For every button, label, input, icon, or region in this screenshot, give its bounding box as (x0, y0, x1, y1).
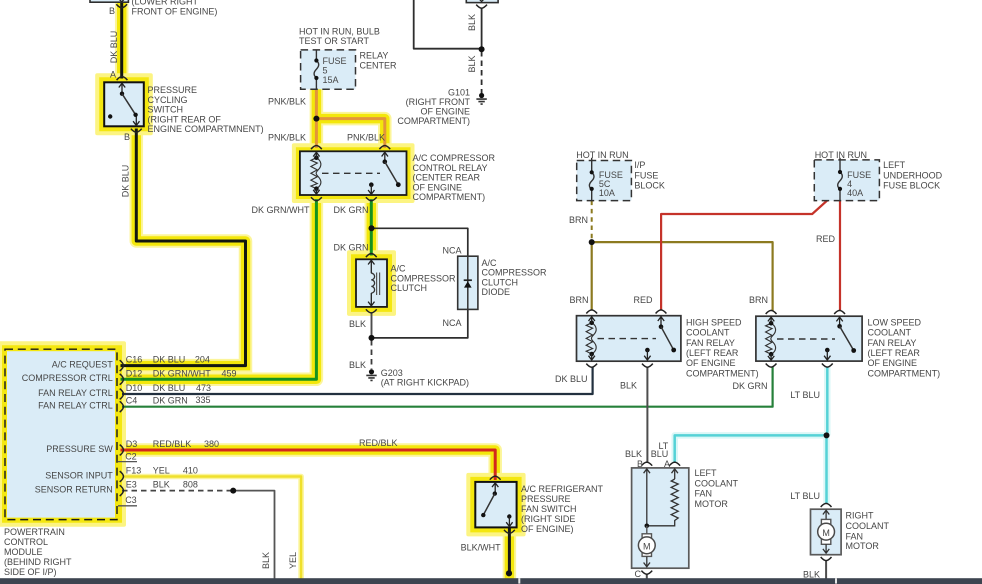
svg-text:C: C (635, 569, 642, 579)
wire LT BLU low speed relay to junction and left fan motor (675, 367, 828, 463)
wire BLK 808 junction to bottom (233, 491, 274, 579)
wire glow RED/BLK 380 highlighted run (122, 450, 495, 479)
relay actuator dashed link (777, 338, 835, 340)
relay terminal cups (586, 310, 597, 314)
svg-text:CLUTCH: CLUTCH (391, 283, 428, 293)
svg-text:C16: C16 (126, 355, 143, 365)
svg-text:BLK: BLK (620, 381, 637, 391)
svg-text:DK GRN: DK GRN (732, 381, 767, 391)
wire LT BLU junction to right fan motor (823, 435, 830, 503)
switch terminal cups (117, 77, 128, 81)
relay coil terminal arrows (313, 152, 319, 158)
svg-text:PRESSURE SW: PRESSURE SW (46, 444, 113, 454)
component: A/C compressor clutch (356, 254, 387, 313)
svg-text:335: 335 (196, 395, 211, 405)
splice DK GRN / diode top (369, 225, 375, 231)
svg-text:OF ENGINE: OF ENGINE (420, 107, 470, 117)
svg-text:RIGHT: RIGHT (846, 511, 875, 521)
svg-text:B: B (124, 132, 130, 142)
svg-text:MOTOR: MOTOR (695, 499, 729, 509)
wire BLK left fan motor C to bottom (646, 574, 648, 579)
svg-text:(RIGHT SIDE: (RIGHT SIDE (521, 514, 575, 524)
svg-text:BRN: BRN (569, 295, 588, 305)
svg-text:PRESSURE: PRESSURE (521, 494, 571, 504)
PCM pin cup F13 (120, 471, 124, 482)
wire BLK top-right box to G101 junction (481, 8, 483, 49)
svg-text:F13: F13 (126, 466, 142, 476)
svg-text:FUSE: FUSE (634, 170, 658, 180)
svg-text:COMPRESSOR: COMPRESSOR (391, 273, 457, 283)
svg-text:M: M (643, 541, 651, 551)
svg-text:FAN RELAY: FAN RELAY (686, 338, 735, 348)
component: right coolant fan motor (811, 503, 842, 560)
svg-text:BLK: BLK (467, 55, 477, 72)
wire BRN dashed fuse 5C to junction (591, 201, 593, 240)
relay coil (766, 323, 772, 354)
PCM pin stub C3 (118, 505, 137, 507)
wire BLK dashed junction to ground G101 (481, 51, 483, 93)
svg-text:CENTER: CENTER (360, 60, 398, 70)
svg-text:204: 204 (195, 355, 210, 365)
svg-text:FAN: FAN (695, 489, 713, 499)
svg-text:B: B (637, 459, 643, 469)
svg-text:C2: C2 (125, 451, 137, 461)
CORES (122, 0, 510, 572)
svg-text:LEFT: LEFT (883, 160, 906, 170)
svg-text:COMPARTMENT): COMPARTMENT) (868, 368, 941, 378)
svg-text:YEL: YEL (288, 552, 298, 569)
svg-text:BLOCK: BLOCK (634, 180, 665, 190)
splice BLK/WHT end (506, 570, 512, 576)
svg-text:COMPARTMENT): COMPARTMENT) (397, 116, 470, 126)
svg-text:G101: G101 (448, 87, 470, 97)
svg-text:BLK: BLK (153, 480, 170, 490)
component: fuse 5 relay center box (301, 50, 356, 89)
svg-text:DK GRN/WHT: DK GRN/WHT (252, 205, 310, 215)
wire BLK/WHT core fan switch to splice (508, 527, 511, 572)
component: high speed coolant fan relay (577, 310, 681, 367)
svg-text:A/C: A/C (482, 258, 498, 268)
splice BLK G101 (479, 46, 485, 52)
svg-text:LEFT: LEFT (695, 468, 718, 478)
svg-text:B: B (109, 6, 115, 16)
svg-text:10A: 10A (599, 188, 615, 198)
svg-text:OF ENGINE: OF ENGINE (686, 358, 736, 368)
svg-text:DIODE: DIODE (482, 287, 511, 297)
relay actuator dashed link (322, 172, 380, 174)
wire PNK/BLK core fuse 5 to relay with branch (316, 89, 384, 146)
svg-text:(AT RIGHT KICKPAD): (AT RIGHT KICKPAD) (381, 377, 469, 387)
relay switch (384, 152, 386, 161)
svg-text:DK BLU: DK BLU (555, 374, 588, 384)
svg-text:CONTROL RELAY: CONTROL RELAY (413, 163, 488, 173)
relay switch (658, 317, 664, 327)
svg-text:FUSE: FUSE (323, 56, 347, 66)
svg-text:RED: RED (816, 234, 836, 244)
svg-text:OF ENGINE: OF ENGINE (868, 358, 918, 368)
wire glow BLK/WHT highlighted run (503, 527, 517, 574)
svg-text:LT BLU: LT BLU (790, 491, 820, 501)
svg-text:DK BLU: DK BLU (109, 31, 119, 64)
svg-text:SENSOR RETURN: SENSOR RETURN (35, 484, 113, 494)
left fan motor resistor (647, 479, 678, 526)
splice LT BLU (824, 432, 830, 438)
svg-text:BLK: BLK (467, 14, 477, 31)
svg-text:BLK/WHT: BLK/WHT (461, 542, 502, 552)
clutch coil (371, 273, 374, 293)
svg-text:FRONT OF ENGINE): FRONT OF ENGINE) (132, 7, 218, 17)
wire RED fuse 4 to low speed relay (839, 200, 841, 311)
svg-text:COOLANT: COOLANT (686, 328, 730, 338)
wire RED/BLK 380 core PCM D3 to pressure fan switch (122, 450, 495, 479)
component: left coolant fan motor (632, 462, 689, 574)
wire RED fuse 4 diagonal dark lead (829, 189, 841, 199)
svg-text:COMPRESSOR: COMPRESSOR (482, 268, 548, 278)
svg-text:(BEHIND RIGHT: (BEHIND RIGHT (4, 557, 72, 567)
svg-text:DK GRN/WHT: DK GRN/WHT (153, 368, 211, 378)
svg-text:LT BLU: LT BLU (790, 390, 820, 400)
svg-text:(LEFT REAR: (LEFT REAR (868, 348, 921, 358)
wire DK BLU 204 core pressure switch to PCM C16 (122, 130, 246, 366)
svg-text:D3: D3 (126, 439, 138, 449)
svg-text:NCA: NCA (442, 318, 461, 328)
svg-text:HIGH SPEED: HIGH SPEED (686, 317, 742, 327)
wire DK BLU 204 core top box to pressure switch (120, 0, 123, 77)
PCM pin cup E3 (120, 485, 124, 496)
component: powertrain control module (5, 349, 137, 519)
svg-text:COOLANT: COOLANT (695, 478, 739, 488)
svg-text:(CENTER REAR: (CENTER REAR (413, 173, 481, 183)
component: A/C compressor clutch diode (458, 256, 478, 309)
svg-text:808: 808 (183, 480, 198, 490)
wire RED fuse 4 to high speed relay (661, 189, 840, 310)
svg-text:CLUTCH: CLUTCH (482, 277, 519, 287)
svg-text:FAN SWITCH: FAN SWITCH (521, 504, 577, 514)
svg-text:DK BLU: DK BLU (153, 383, 186, 393)
right fan motor M symbol (821, 519, 830, 544)
svg-text:BLK: BLK (803, 569, 820, 579)
svg-text:RELAY: RELAY (360, 51, 389, 61)
relay coil (586, 323, 592, 354)
wire DK BLU 473 D10 to high speed fan relay (122, 367, 593, 394)
svg-text:(RIGHT REAR OF: (RIGHT REAR OF (148, 114, 222, 124)
svg-text:COMPARTMENT): COMPARTMENT) (686, 368, 759, 378)
wire glow DK GRN/WHT 459 highlighted run (122, 201, 316, 380)
component: engine box (lower right front of engine, cut off at top) (90, 0, 128, 8)
wire BRN junction to high speed relay (591, 242, 593, 310)
svg-text:YEL: YEL (153, 466, 170, 476)
svg-text:HOT IN RUN: HOT IN RUN (815, 150, 867, 160)
svg-text:C4: C4 (126, 396, 138, 406)
svg-text:COMPRESSOR CTRL: COMPRESSOR CTRL (22, 373, 113, 383)
svg-text:CYCLING: CYCLING (148, 95, 188, 105)
svg-text:ENGINE COMPARTMNENT): ENGINE COMPARTMNENT) (148, 124, 264, 134)
component glow A/C compressor clutch (349, 252, 394, 314)
svg-text:40A: 40A (847, 188, 863, 198)
svg-text:COOLANT: COOLANT (846, 521, 890, 531)
svg-text:CONTROL: CONTROL (4, 537, 48, 547)
svg-text:DK BLU: DK BLU (121, 165, 131, 198)
svg-text:FAN: FAN (846, 532, 864, 542)
wire DK GRN core relay to clutch (370, 201, 373, 254)
svg-text:DK GRN: DK GRN (333, 205, 368, 215)
component: ground distribution box (top right, cut off) (466, 0, 498, 8)
wire BLK right fan motor to bottom (825, 561, 827, 579)
svg-text:BLK: BLK (261, 552, 271, 569)
component: fuse 4 left underhood fuse block box (814, 158, 879, 201)
svg-text:HOT IN RUN: HOT IN RUN (576, 150, 628, 160)
svg-text:TEST OR START: TEST OR START (299, 36, 370, 46)
component: A/C compressor control relay (300, 146, 407, 201)
svg-text:RED: RED (633, 295, 653, 305)
svg-text:SENSOR INPUT: SENSOR INPUT (45, 470, 113, 480)
svg-text:473: 473 (196, 383, 211, 393)
PCM pin cup D12 (120, 374, 124, 385)
svg-text:380: 380 (204, 439, 219, 449)
component glow powertrain control module (0, 343, 124, 525)
PCM pin cup C4 (120, 401, 124, 412)
splice BLK 808 (230, 488, 236, 494)
ground G101 (476, 93, 486, 104)
svg-text:FUSE BLOCK: FUSE BLOCK (883, 180, 940, 190)
relay terminal cups (766, 310, 777, 314)
svg-text:COOLANT: COOLANT (868, 328, 912, 338)
component glow pressure cycling switch (97, 75, 151, 133)
wire BLK clutch to junction (371, 313, 373, 338)
relay coil terminal arrows (589, 317, 595, 323)
PCM pin cup D3 (120, 445, 124, 456)
svg-text:UNDERHOOD: UNDERHOOD (883, 170, 943, 180)
wire NCA diode top branch (372, 228, 468, 256)
relay switch (836, 317, 842, 326)
component: pressure cycling switch (104, 77, 144, 133)
svg-text:PNK/BLK: PNK/BLK (268, 97, 306, 107)
wire glow YEL 410 soft glow (122, 477, 301, 578)
ground G203 (366, 369, 376, 380)
svg-text:(RIGHT FRONT: (RIGHT FRONT (406, 97, 471, 107)
wire BLK L-run from top edge to G101 junction (414, 0, 482, 49)
bottom bar (0, 578, 982, 584)
svg-text:OF ENGINE: OF ENGINE (413, 182, 463, 192)
svg-text:BLK: BLK (349, 319, 366, 329)
PCM pin cup D10 (120, 389, 124, 400)
svg-text:DK GRN: DK GRN (333, 243, 368, 253)
left fan motor M symbol (646, 526, 648, 534)
svg-text:BRN: BRN (749, 295, 768, 305)
wire BRN junction to low speed relay (592, 242, 773, 311)
wire YEL 410 core (122, 477, 301, 579)
svg-text:5: 5 (323, 66, 328, 76)
GLOWS (0, 0, 524, 578)
svg-text:BLK: BLK (349, 360, 366, 370)
svg-text:COMPARTMENT): COMPARTMENT) (413, 192, 486, 202)
svg-text:MOTOR: MOTOR (846, 541, 880, 551)
component glow A/C refrigerant pressure fan switch (468, 475, 523, 535)
component: low speed coolant fan relay (756, 310, 862, 367)
svg-text:RED/BLK: RED/BLK (153, 439, 192, 449)
svg-text:DK BLU: DK BLU (153, 355, 186, 365)
svg-text:A/C REFRIGERANT: A/C REFRIGERANT (521, 484, 604, 494)
svg-text:PRESSURE: PRESSURE (148, 85, 198, 95)
svg-text:BRN: BRN (569, 215, 588, 225)
svg-text:SWITCH: SWITCH (148, 105, 184, 115)
fuse 5 element (315, 50, 317, 59)
wire BLK dashed junction to ground G203 (371, 340, 373, 369)
svg-text:RED/BLK: RED/BLK (359, 438, 398, 448)
wire DK GRN 335 C4 to low speed fan relay (122, 367, 773, 407)
component: fuse 5C I/P fuse block box (577, 158, 632, 201)
svg-text:M: M (822, 528, 830, 538)
svg-text:SIDE OF I/P): SIDE OF I/P) (4, 567, 57, 577)
svg-text:A: A (664, 459, 670, 469)
relay coil (311, 158, 317, 189)
relay coil terminal arrows (768, 317, 774, 323)
PCM pin stub C2 (118, 461, 137, 463)
wire glow DK BLU 204 highlighted run (122, 0, 246, 366)
svg-text:POWERTRAIN: POWERTRAIN (4, 527, 65, 537)
right fan motor terminal cups (821, 503, 832, 507)
svg-text:LOW SPEED: LOW SPEED (868, 317, 922, 327)
svg-text:MODULE: MODULE (4, 547, 43, 557)
wire BLK high speed relay to left fan motor (646, 367, 648, 463)
relay actuator dashed link (598, 338, 657, 340)
component: A/C refrigerant pressure fan switch (475, 476, 516, 533)
splice BLK / diode bottom (369, 335, 375, 341)
svg-text:C3: C3 (125, 495, 137, 505)
splice BRN (589, 239, 595, 245)
svg-text:OF ENGINE): OF ENGINE) (521, 524, 574, 534)
wire glow DK GRN clutch highlighted run (365, 201, 379, 256)
wire glow PNK/BLK highlighted run (316, 89, 384, 146)
wire NCA diode bottom branch (372, 309, 468, 338)
svg-text:HOT IN RUN, BULB: HOT IN RUN, BULB (299, 26, 380, 36)
svg-text:(LEFT REAR: (LEFT REAR (686, 348, 739, 358)
component glow A/C compressor control relay (294, 145, 413, 201)
svg-text:A/C COMPRESSOR: A/C COMPRESSOR (413, 153, 496, 163)
splice PNK/BLK (313, 116, 319, 122)
svg-text:D12: D12 (126, 368, 143, 378)
wire BLK 808 E3 dashed to junction (122, 490, 233, 492)
svg-text:E3: E3 (126, 480, 137, 490)
svg-text:15A: 15A (323, 75, 339, 85)
left fan motor terminal cups (641, 462, 652, 466)
relay terminal cups (311, 146, 322, 150)
svg-text:BLU: BLU (651, 449, 669, 459)
svg-text:A: A (110, 70, 116, 80)
svg-text:BLK: BLK (625, 449, 642, 459)
svg-text:PNK/BLK: PNK/BLK (268, 132, 306, 142)
svg-text:FAN RELAY CTRL: FAN RELAY CTRL (38, 401, 113, 411)
svg-text:459: 459 (222, 368, 237, 378)
PCM pin cup C16 (120, 360, 124, 371)
svg-text:A/C: A/C (391, 264, 407, 274)
switch terminal cups (490, 476, 501, 480)
svg-text:G203: G203 (381, 368, 403, 378)
PLAINWIRES (122, 0, 840, 579)
svg-text:DK GRN: DK GRN (153, 396, 188, 406)
wire DK GRN/WHT 459 core relay to PCM D12 (122, 201, 316, 380)
svg-text:NCA: NCA (442, 245, 461, 255)
svg-text:FAN RELAY CTRL: FAN RELAY CTRL (38, 388, 113, 398)
svg-text:D10: D10 (126, 383, 143, 393)
svg-text:A/C REQUEST: A/C REQUEST (52, 359, 114, 369)
svg-text:I/P: I/P (634, 160, 645, 170)
svg-text:PNK/BLK: PNK/BLK (347, 132, 385, 142)
svg-text:410: 410 (183, 466, 198, 476)
svg-text:FAN RELAY: FAN RELAY (868, 338, 917, 348)
